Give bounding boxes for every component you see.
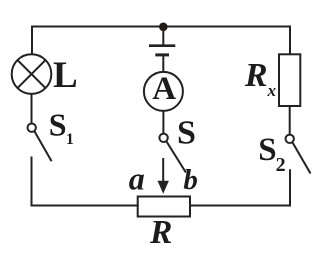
ammeter A circle bbox=[144, 72, 183, 111]
wire bottom left segment bbox=[31, 205, 139, 207]
rheostat R body bbox=[138, 197, 190, 217]
node junction dot bbox=[159, 23, 168, 32]
wire top horizontal bbox=[31, 26, 291, 28]
battery BT1 long plate bbox=[149, 44, 175, 47]
wire top-right riser bbox=[289, 27, 291, 55]
svg-text:R: R bbox=[244, 57, 268, 94]
svg-text:L: L bbox=[53, 55, 78, 96]
svg-text:x: x bbox=[267, 81, 277, 100]
lamp L cross stroke 1 bbox=[18, 60, 46, 88]
wire junction to battery bbox=[162, 27, 164, 46]
switch S1 blade bbox=[34, 131, 51, 161]
switch S1 pivot bbox=[28, 124, 36, 132]
wire battery to ammeter bbox=[162, 55, 164, 73]
rheostat slider arrow bbox=[158, 158, 169, 194]
switch S2 blade bbox=[292, 142, 310, 173]
wire bottom right segment bbox=[189, 205, 291, 207]
switch S blade bbox=[166, 141, 186, 172]
wire Rx to S2 bbox=[289, 106, 291, 135]
svg-text:S: S bbox=[258, 132, 276, 168]
svg-text:S: S bbox=[177, 114, 196, 151]
wire lamp to S1 bbox=[31, 94, 33, 124]
resistor Rx body bbox=[279, 54, 300, 106]
svg-text:2: 2 bbox=[276, 154, 286, 176]
battery BT1 short plate bbox=[155, 53, 169, 56]
switch S2 pivot bbox=[286, 135, 294, 143]
wire ammeter to switch S bbox=[162, 111, 164, 134]
svg-text:a: a bbox=[129, 161, 145, 197]
svg-text:A: A bbox=[152, 71, 176, 107]
lamp L cross stroke 2 bbox=[18, 60, 46, 88]
lamp L circle bbox=[12, 54, 52, 94]
wire left riser bbox=[31, 157, 33, 207]
svg-text:S: S bbox=[49, 107, 67, 143]
switch S pivot bbox=[159, 134, 167, 142]
wire top-left riser bbox=[31, 27, 33, 55]
svg-text:1: 1 bbox=[66, 131, 74, 148]
svg-text:R: R bbox=[149, 214, 172, 251]
wire S2 to bottom bbox=[289, 169, 291, 206]
svg-text:b: b bbox=[183, 164, 198, 196]
